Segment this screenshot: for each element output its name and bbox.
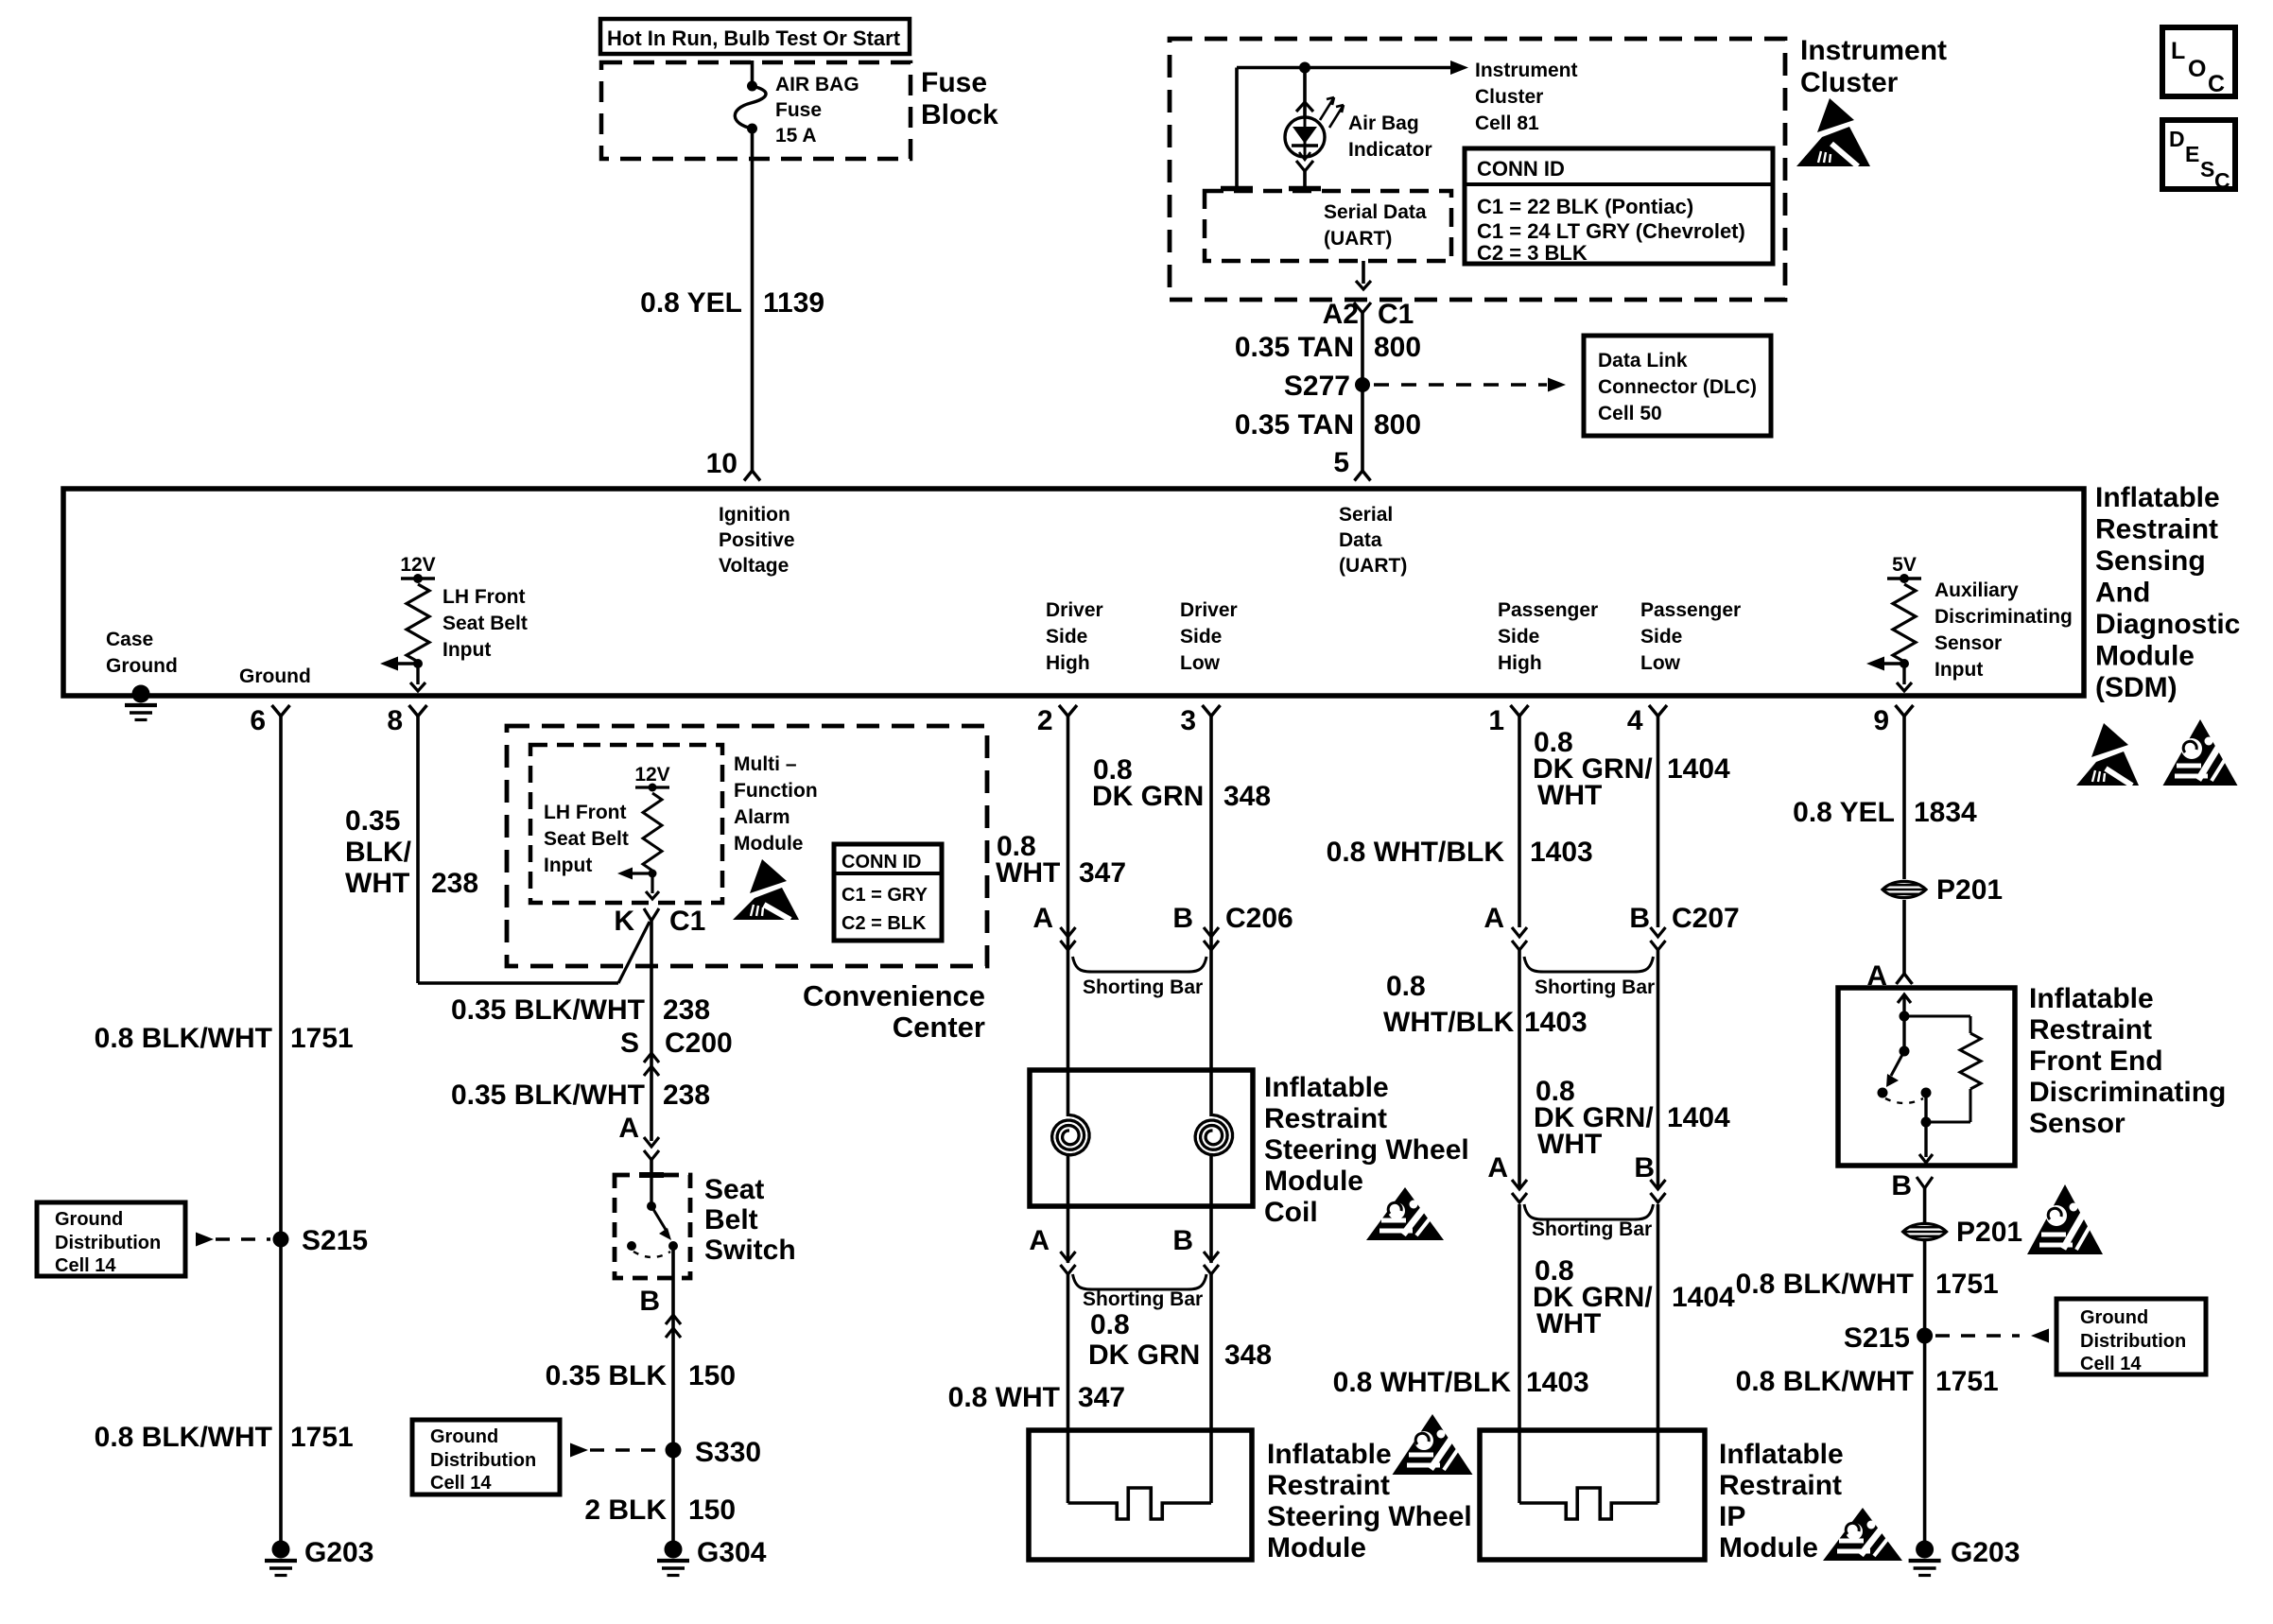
svg-text:S: S xyxy=(620,1028,639,1059)
svg-text:Seat Belt: Seat Belt xyxy=(442,613,528,634)
svg-text:Sensor: Sensor xyxy=(2029,1108,2126,1139)
airbag triangle (SDM) xyxy=(2163,719,2238,786)
squib (steering wheel module) xyxy=(1068,1488,1212,1519)
svg-text:Sensor: Sensor xyxy=(1935,632,2002,654)
SDM module box (Inflatable Restraint Sensing And Diagnostic Module) xyxy=(63,489,2084,696)
svg-text:Ground: Ground xyxy=(430,1426,498,1447)
sensor internal: switch wire xyxy=(1902,1016,1905,1051)
pin 1 connector xyxy=(1511,705,1529,717)
svg-text:5V: 5V xyxy=(1892,554,1917,576)
svg-text:DK GRN: DK GRN xyxy=(1088,1339,1200,1371)
arrow left (alarm module) xyxy=(630,872,652,874)
arrow down to pin 9 xyxy=(1902,664,1905,684)
svg-text:Ground: Ground xyxy=(55,1209,123,1230)
svg-text:1403: 1403 xyxy=(1526,1367,1589,1398)
svg-text:Coil: Coil xyxy=(1264,1197,1318,1228)
arrow out of serial data box xyxy=(1362,261,1365,284)
svg-text:Voltage: Voltage xyxy=(719,555,789,577)
svg-text:6: 6 xyxy=(250,705,266,736)
wire to instrument cluster cell 81 xyxy=(1237,66,1452,70)
svg-text:C2 = 3 BLK: C2 = 3 BLK xyxy=(1477,241,1588,265)
svg-text:Inflatable: Inflatable xyxy=(1267,1439,1392,1470)
svg-text:1: 1 xyxy=(1488,705,1504,736)
svg-text:CONN ID: CONN ID xyxy=(842,852,921,872)
CONN ID table (convenience center) xyxy=(834,844,942,941)
svg-text:2 BLK: 2 BLK xyxy=(584,1494,667,1526)
svg-text:Restraint: Restraint xyxy=(1264,1103,1387,1134)
ESD triangle (convenience center) xyxy=(750,859,787,893)
svg-text:Input: Input xyxy=(442,639,491,661)
shorting bar C206 xyxy=(1073,957,1207,972)
svg-text:238: 238 xyxy=(663,994,710,1026)
svg-text:Inflatable: Inflatable xyxy=(2095,482,2220,513)
svg-text:C1 = 24 LT GRY (Chevrolet): C1 = 24 LT GRY (Chevrolet) xyxy=(1477,219,1745,243)
svg-text:Side: Side xyxy=(1640,626,1682,648)
reference arrow S330 xyxy=(570,1443,588,1458)
svg-text:Input: Input xyxy=(1935,659,1983,681)
svg-text:0.8: 0.8 xyxy=(1386,971,1426,1002)
svg-text:Module: Module xyxy=(734,833,804,855)
wire 0.8 DK GRN/WHT 1404 lower xyxy=(1518,1204,1521,1503)
svg-text:Indicator: Indicator xyxy=(1348,139,1432,161)
svg-text:WHT: WHT xyxy=(1536,1308,1601,1339)
svg-text:0.8 BLK/WHT: 0.8 BLK/WHT xyxy=(95,1422,272,1453)
Seat Belt Switch dashed box xyxy=(615,1175,690,1278)
wire 0.8 WHT/BLK 1403 lower xyxy=(1657,1204,1660,1503)
svg-text:Hot In Run, Bulb Test Or Start: Hot In Run, Bulb Test Or Start xyxy=(607,26,901,50)
svg-text:3: 3 xyxy=(1180,705,1196,736)
svg-text:1404: 1404 xyxy=(1672,1282,1735,1313)
wire node to indicator xyxy=(1303,68,1307,119)
svg-text:10: 10 xyxy=(706,448,737,479)
svg-text:Shorting Bar: Shorting Bar xyxy=(1532,1218,1652,1240)
DESC reference box xyxy=(2162,120,2235,189)
svg-text:Center: Center xyxy=(893,1011,985,1044)
sensor internal: output wire xyxy=(1924,1093,1927,1122)
svg-text:Side: Side xyxy=(1180,626,1222,648)
terminal bar below indicator xyxy=(1289,186,1321,192)
wire 0.8 WHT/BLK 1403 mid xyxy=(1518,950,1521,1189)
svg-text:Restraint: Restraint xyxy=(1719,1470,1842,1501)
terminal bar left branch xyxy=(1221,186,1253,192)
pin 10 connector xyxy=(744,471,760,481)
svg-text:Fuse: Fuse xyxy=(921,67,987,98)
wire 0.8 WHT 347 (pin2) xyxy=(1067,717,1070,1117)
svg-text:Diagnostic: Diagnostic xyxy=(2095,609,2240,640)
svg-text:0.35: 0.35 xyxy=(345,805,400,837)
svg-text:C2 = BLK: C2 = BLK xyxy=(842,913,927,934)
svg-text:0.35 TAN: 0.35 TAN xyxy=(1235,409,1354,441)
airbag triangle (front end sensor) xyxy=(2027,1184,2103,1254)
svg-text:L: L xyxy=(2171,38,2185,64)
node splice at indicator xyxy=(1299,62,1310,74)
svg-text:0.8 BLK/WHT: 0.8 BLK/WHT xyxy=(1736,1269,1914,1300)
wire 0.8 YEL 1139 xyxy=(751,129,755,471)
svg-text:Auxiliary: Auxiliary xyxy=(1935,579,2019,601)
svg-text:B: B xyxy=(1629,903,1650,934)
wire 0.8 DK GRN/WHT 1404 (pin4) xyxy=(1657,717,1660,928)
svg-text:0.35 BLK: 0.35 BLK xyxy=(546,1360,668,1391)
wire 0.8 DK GRN 348 (pin3) xyxy=(1209,717,1213,1117)
svg-text:15 A: 15 A xyxy=(775,125,817,147)
svg-text:And: And xyxy=(2095,578,2150,609)
arrow left (aux input) xyxy=(1880,662,1904,665)
splice S330 xyxy=(666,1443,682,1459)
svg-text:Ignition: Ignition xyxy=(719,504,790,526)
svg-text:Steering Wheel: Steering Wheel xyxy=(1267,1501,1472,1532)
shorting bar SWM xyxy=(1073,1274,1207,1289)
svg-text:347: 347 xyxy=(1079,857,1126,889)
svg-text:1834: 1834 xyxy=(1914,797,1977,828)
svg-text:C: C xyxy=(2214,168,2230,193)
Convenience Center dashed box xyxy=(507,726,987,966)
svg-text:C: C xyxy=(2208,71,2225,97)
pin 8 connector xyxy=(409,705,427,717)
ground G304 xyxy=(665,1541,683,1559)
svg-text:Serial Data: Serial Data xyxy=(1324,201,1427,223)
squib (IP module) xyxy=(1519,1488,1658,1519)
reference arrow S215 left xyxy=(196,1233,214,1247)
5V supply bar xyxy=(1887,577,1921,579)
svg-text:1751: 1751 xyxy=(290,1422,354,1453)
wire P201 to sensor xyxy=(1902,900,1906,974)
wire into seat belt switch xyxy=(650,1160,653,1175)
svg-text:WHT: WHT xyxy=(996,857,1060,889)
svg-text:150: 150 xyxy=(688,1360,736,1391)
Ground Distribution Cell 14 box (middle) xyxy=(412,1420,560,1494)
Inflatable Restraint Steering Wheel Module box xyxy=(1029,1430,1252,1560)
svg-text:Case: Case xyxy=(106,629,153,650)
svg-text:AIR BAG: AIR BAG xyxy=(775,74,859,95)
svg-text:D: D xyxy=(2169,127,2185,151)
LED lightning arrows xyxy=(1320,97,1334,120)
svg-text:S215: S215 xyxy=(302,1225,368,1256)
svg-text:C1 = 22 BLK (Pontiac): C1 = 22 BLK (Pontiac) xyxy=(1477,195,1693,218)
svg-text:Sensing: Sensing xyxy=(2095,545,2206,577)
svg-text:Seat: Seat xyxy=(704,1174,764,1205)
svg-text:800: 800 xyxy=(1374,332,1421,363)
svg-text:Ground: Ground xyxy=(106,655,178,677)
resistor auxiliary discriminating sensor input xyxy=(1893,584,1916,662)
svg-text:12V: 12V xyxy=(634,764,669,786)
svg-text:0.8: 0.8 xyxy=(1090,1309,1130,1340)
sensor internal: node A xyxy=(1900,1011,1910,1022)
svg-text:Low: Low xyxy=(1180,652,1221,674)
svg-text:Distribution: Distribution xyxy=(430,1450,536,1471)
12V supply bar xyxy=(401,577,435,579)
svg-text:S277: S277 xyxy=(1284,371,1350,402)
sensor internal: contact dots xyxy=(1878,1088,1888,1098)
svg-text:G203: G203 xyxy=(304,1537,373,1568)
svg-text:(SDM): (SDM) xyxy=(2095,672,2178,703)
svg-text:Seat Belt: Seat Belt xyxy=(544,828,629,850)
svg-text:Front End: Front End xyxy=(2029,1045,2163,1077)
svg-text:1139: 1139 xyxy=(763,287,824,319)
12V supply bar (alarm module) xyxy=(635,786,669,788)
pin 4 connector xyxy=(1649,705,1667,717)
arrow down (alarm module) xyxy=(651,873,653,893)
wire below sensor xyxy=(1923,1188,1927,1549)
wire 0.8 DK GRN/WHT 1404 mid xyxy=(1657,950,1660,1189)
svg-text:BLK/: BLK/ xyxy=(345,837,412,868)
svg-text:Cell 81: Cell 81 xyxy=(1475,112,1539,134)
svg-text:1404: 1404 xyxy=(1667,1102,1730,1133)
svg-text:Module: Module xyxy=(1719,1532,1818,1564)
wire below switch xyxy=(671,1246,675,1549)
svg-text:Ground: Ground xyxy=(239,665,311,687)
Ground Distribution Cell 14 box (left) xyxy=(37,1202,185,1276)
svg-text:C1: C1 xyxy=(669,906,705,937)
svg-text:0.8 YEL: 0.8 YEL xyxy=(640,287,742,319)
splice S215 (left) xyxy=(273,1232,289,1248)
svg-text:Steering Wheel: Steering Wheel xyxy=(1264,1134,1469,1166)
svg-text:347: 347 xyxy=(1078,1382,1125,1413)
svg-text:Inflatable: Inflatable xyxy=(1719,1439,1844,1470)
Multi-Function Alarm Module dashed box xyxy=(530,745,722,903)
svg-text:WHT: WHT xyxy=(345,868,409,899)
svg-text:1404: 1404 xyxy=(1667,753,1730,785)
LOC reference box xyxy=(2162,27,2235,96)
svg-text:Side: Side xyxy=(1046,626,1087,648)
svg-text:Block: Block xyxy=(921,99,998,130)
svg-text:Ground: Ground xyxy=(2080,1307,2148,1328)
svg-text:Cell 50: Cell 50 xyxy=(1598,403,1662,424)
svg-text:G304: G304 xyxy=(697,1537,767,1568)
case ground symbol xyxy=(132,685,150,703)
svg-text:P201: P201 xyxy=(1956,1217,2022,1248)
svg-text:1403: 1403 xyxy=(1524,1007,1588,1038)
svg-text:Alarm: Alarm xyxy=(734,806,790,828)
ground G203 (left) xyxy=(272,1541,290,1559)
svg-text:238: 238 xyxy=(431,868,478,899)
svg-text:Air Bag: Air Bag xyxy=(1348,112,1419,134)
svg-text:0.35 TAN: 0.35 TAN xyxy=(1235,332,1354,363)
wire A to coil xyxy=(1067,950,1069,1116)
svg-text:4: 4 xyxy=(1627,705,1643,736)
svg-text:1403: 1403 xyxy=(1530,837,1593,868)
sensor internal: resistor branch xyxy=(1904,1015,1970,1018)
resistor LH front seat belt input (SDM) xyxy=(407,584,429,662)
splice S215 (right) xyxy=(1917,1328,1933,1344)
svg-text:0.8 BLK/WHT: 0.8 BLK/WHT xyxy=(95,1023,272,1054)
svg-text:WHT: WHT xyxy=(1537,780,1602,811)
svg-text:1751: 1751 xyxy=(290,1023,354,1054)
svg-text:S330: S330 xyxy=(695,1437,761,1468)
svg-text:(UART): (UART) xyxy=(1339,555,1407,577)
wire 0.35 BLK/WHT 238 (pin8) xyxy=(416,717,420,984)
svg-text:Inflatable: Inflatable xyxy=(2029,983,2154,1014)
arrow left (seat belt input) xyxy=(393,662,418,665)
svg-text:Serial: Serial xyxy=(1339,504,1393,526)
Inflatable Restraint IP Module box xyxy=(1480,1430,1705,1560)
left branch wire xyxy=(1235,68,1239,189)
svg-text:Instrument: Instrument xyxy=(1475,60,1578,81)
svg-text:0.8 WHT/BLK: 0.8 WHT/BLK xyxy=(1333,1367,1512,1398)
wire 0.35 TAN 800 (upper) xyxy=(1361,313,1364,471)
arrow down to pin 8 xyxy=(416,664,419,684)
svg-text:S: S xyxy=(2200,157,2214,181)
svg-text:Cluster: Cluster xyxy=(1800,67,1899,98)
shorting bar C207 xyxy=(1524,957,1654,972)
splice S277 xyxy=(1355,377,1370,392)
svg-text:0.8 BLK/WHT: 0.8 BLK/WHT xyxy=(1736,1366,1914,1397)
svg-text:DK GRN: DK GRN xyxy=(1092,781,1204,812)
svg-text:CONN ID: CONN ID xyxy=(1477,157,1565,181)
wire below left coil xyxy=(1067,1156,1070,1263)
svg-text:Distribution: Distribution xyxy=(2080,1331,2186,1352)
svg-text:G203: G203 xyxy=(1951,1537,2020,1568)
svg-text:Passenger: Passenger xyxy=(1498,599,1598,621)
svg-text:8: 8 xyxy=(387,705,403,736)
Fuse Block dashed box xyxy=(601,62,911,159)
svg-text:B: B xyxy=(639,1286,660,1317)
sensor internal: entry arrow xyxy=(1898,994,1911,1003)
air bag indicator LED U1 xyxy=(1285,117,1325,157)
pin 6 connector xyxy=(272,705,290,717)
svg-text:Shorting Bar: Shorting Bar xyxy=(1083,1288,1203,1310)
airbag triangle (coil) xyxy=(1366,1187,1444,1240)
pin 9 connector xyxy=(1896,705,1914,717)
svg-text:0.8 YEL: 0.8 YEL xyxy=(1793,797,1895,828)
svg-text:Data Link: Data Link xyxy=(1598,350,1688,371)
svg-text:Cell 14: Cell 14 xyxy=(2080,1354,2142,1374)
svg-text:5: 5 xyxy=(1333,447,1349,478)
svg-text:WHT: WHT xyxy=(1537,1129,1602,1160)
dashed reference arrow to DLC xyxy=(1374,383,1547,386)
svg-text:Module: Module xyxy=(2095,641,2195,672)
Instrument Cluster dashed box xyxy=(1170,39,1785,300)
svg-text:Multi –: Multi – xyxy=(734,753,797,775)
svg-text:Fuse: Fuse xyxy=(775,99,822,121)
svg-text:A: A xyxy=(1032,903,1053,934)
svg-text:0.35 BLK/WHT: 0.35 BLK/WHT xyxy=(451,1080,645,1111)
diagonal wire into connector K xyxy=(618,922,650,983)
connector above indicator xyxy=(1296,102,1313,112)
airbag triangle (SWM) xyxy=(1393,1414,1473,1475)
junction dot 5V resistor xyxy=(1900,659,1909,668)
svg-text:Function: Function xyxy=(734,780,818,802)
pin 3 connector xyxy=(1203,705,1221,717)
svg-text:Switch: Switch xyxy=(704,1235,796,1266)
svg-text:Input: Input xyxy=(544,855,592,876)
svg-text:Instrument: Instrument xyxy=(1800,35,1947,66)
svg-text:Belt: Belt xyxy=(704,1204,758,1235)
terminal bar seat belt switch xyxy=(639,1172,664,1178)
svg-text:Positive: Positive xyxy=(719,529,795,551)
wire below K C1 xyxy=(650,921,653,1141)
label box: Hot In Run, Bulb Test Or Start xyxy=(600,19,910,54)
wire below right coil xyxy=(1209,1156,1213,1263)
svg-text:WHT/BLK: WHT/BLK xyxy=(1383,1007,1515,1038)
svg-text:P201: P201 xyxy=(1936,874,2003,906)
wire 0.8 DK GRN 348 lower xyxy=(1209,1274,1213,1503)
pass-through connector P201 lower xyxy=(1903,1223,1947,1239)
svg-text:LH Front: LH Front xyxy=(442,586,525,608)
svg-text:IP: IP xyxy=(1719,1501,1745,1532)
svg-text:150: 150 xyxy=(688,1494,736,1526)
svg-text:Driver: Driver xyxy=(1180,599,1238,621)
fuse F AIR BAG 15 A xyxy=(747,81,757,92)
svg-text:C1 = GRY: C1 = GRY xyxy=(842,885,928,906)
svg-text:A: A xyxy=(618,1113,639,1144)
svg-text:Restraint: Restraint xyxy=(1267,1470,1390,1501)
svg-text:Shorting Bar: Shorting Bar xyxy=(1535,976,1655,998)
svg-text:9: 9 xyxy=(1873,705,1889,736)
svg-text:High: High xyxy=(1046,652,1090,674)
svg-text:238: 238 xyxy=(663,1080,710,1111)
svg-text:Module: Module xyxy=(1264,1166,1363,1197)
junction dot (alarm module) xyxy=(649,870,657,878)
svg-text:348: 348 xyxy=(1224,1339,1272,1371)
wire 0.8 WHT 347 lower xyxy=(1067,1274,1070,1503)
svg-text:(UART): (UART) xyxy=(1324,228,1392,250)
resistor LH front seat belt input (alarm module) xyxy=(643,793,662,871)
svg-text:0.35 BLK/WHT: 0.35 BLK/WHT xyxy=(451,994,645,1026)
svg-text:K: K xyxy=(614,906,634,937)
ESD triangle (SDM) xyxy=(2091,723,2128,757)
CONN ID table (cluster) xyxy=(1465,148,1773,264)
wire 0.8 WHT/BLK 1403 (pin1) xyxy=(1518,717,1521,928)
svg-text:Discriminating: Discriminating xyxy=(2029,1077,2226,1108)
svg-text:0.8 WHT: 0.8 WHT xyxy=(948,1382,1060,1413)
sensor internal: switch arm xyxy=(1891,1051,1904,1076)
svg-text:Convenience: Convenience xyxy=(803,979,985,1012)
wire into fuse xyxy=(751,60,755,85)
svg-text:1751: 1751 xyxy=(1935,1269,1999,1300)
Ground Distribution Cell 14 box (right) xyxy=(2056,1299,2206,1374)
ground G203 (right) xyxy=(1916,1541,1934,1559)
svg-text:Inflatable: Inflatable xyxy=(1264,1072,1389,1103)
pin 5 connector xyxy=(1355,471,1371,481)
svg-text:C200: C200 xyxy=(665,1028,733,1059)
svg-text:Side: Side xyxy=(1498,626,1539,648)
svg-text:C206: C206 xyxy=(1225,903,1293,934)
coil spiral right xyxy=(1195,1115,1232,1155)
Serial Data (UART) dashed box xyxy=(1205,191,1451,261)
seat belt switch internals xyxy=(650,1175,652,1202)
svg-text:LH Front: LH Front xyxy=(544,802,626,823)
pass-through connector P201 upper xyxy=(1883,881,1926,897)
svg-text:B: B xyxy=(1891,1170,1912,1201)
ESD triangle (instrument cluster) xyxy=(1817,98,1854,132)
svg-text:A: A xyxy=(1029,1225,1050,1256)
svg-text:S215: S215 xyxy=(1844,1322,1910,1354)
svg-text:Distribution: Distribution xyxy=(55,1233,161,1253)
svg-text:Discriminating: Discriminating xyxy=(1935,606,2073,628)
svg-text:Cluster: Cluster xyxy=(1475,86,1543,108)
wire 0.8 YEL 1834 xyxy=(1902,717,1906,880)
svg-text:C207: C207 xyxy=(1672,903,1740,934)
svg-text:348: 348 xyxy=(1223,781,1271,812)
svg-text:E: E xyxy=(2185,142,2199,166)
svg-text:Shorting Bar: Shorting Bar xyxy=(1083,976,1203,998)
svg-text:B: B xyxy=(1172,1225,1193,1256)
svg-text:C1: C1 xyxy=(1378,299,1414,330)
reference arrow S215 right xyxy=(1935,1334,2020,1337)
svg-text:Cell 14: Cell 14 xyxy=(55,1255,116,1276)
svg-text:High: High xyxy=(1498,652,1542,674)
svg-text:0.8 WHT/BLK: 0.8 WHT/BLK xyxy=(1327,837,1505,868)
svg-text:Data: Data xyxy=(1339,529,1382,551)
svg-text:Driver: Driver xyxy=(1046,599,1103,621)
coil spiral left xyxy=(1052,1115,1089,1155)
connector below indicator xyxy=(1296,161,1313,171)
junction dot 12V resistor xyxy=(413,659,423,668)
svg-text:Connector (DLC): Connector (DLC) xyxy=(1598,376,1757,398)
Inflatable Restraint Front End Discriminating Sensor box xyxy=(1838,988,2015,1166)
svg-text:Restraint: Restraint xyxy=(2095,514,2218,545)
svg-text:A: A xyxy=(1487,1152,1508,1183)
